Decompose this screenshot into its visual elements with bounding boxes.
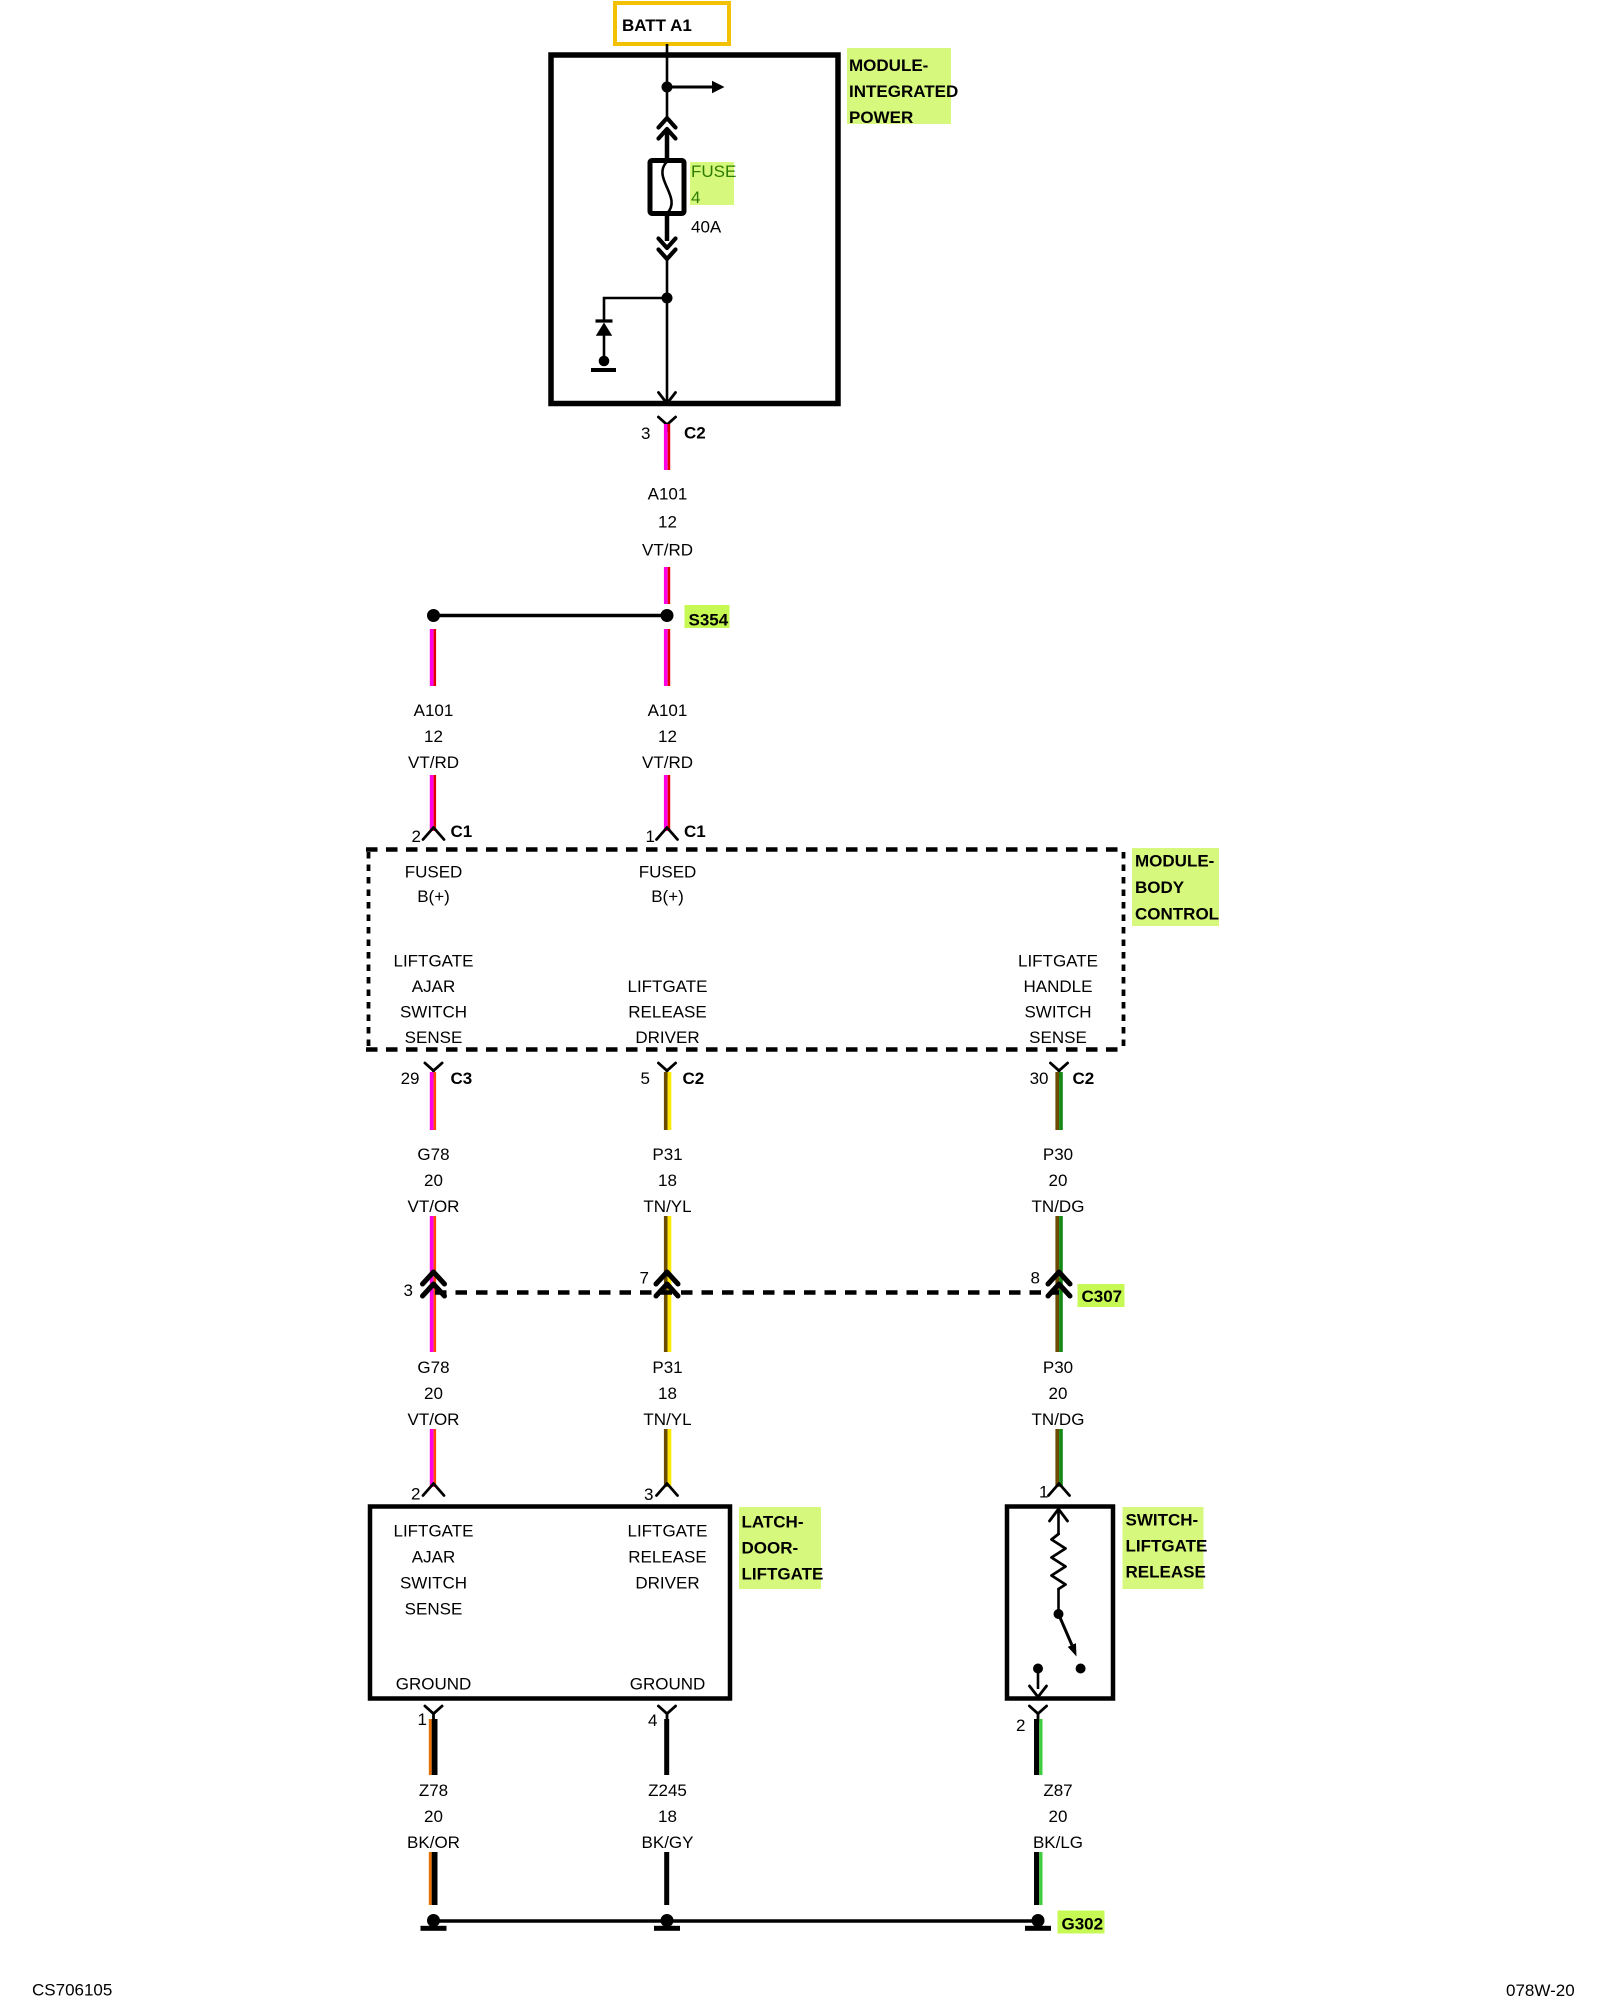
pin label LIFTGATE RELEASE DRIVER (latch)	[628, 1522, 708, 1593]
wire A101 VT/RD segment 2	[664, 567, 670, 604]
svg-text:20: 20	[1049, 1384, 1068, 1403]
wire Z87 BK/LG segment 2	[1034, 1852, 1043, 1905]
wire P30 TN/DG segment 1	[1055, 1072, 1062, 1130]
wire Z245 BK/GY segment 2	[664, 1852, 669, 1905]
wire internal feed	[666, 57, 669, 118]
pin label LIFTGATE AJAR SWITCH SENSE	[394, 952, 474, 1048]
svg-text:A101: A101	[648, 485, 688, 504]
connector pin 2 (chevron, latch)	[411, 1484, 444, 1504]
svg-text:GROUND: GROUND	[396, 1675, 472, 1694]
wire label Z87 20 BK/LG	[1033, 1781, 1083, 1852]
svg-text:A101: A101	[648, 701, 688, 720]
svg-text:7: 7	[640, 1269, 649, 1288]
label SWITCH-LIFTGATE RELEASE	[1123, 1507, 1208, 1589]
wire P30 TN/DG segment 2	[1055, 1216, 1062, 1352]
svg-text:SENSE: SENSE	[1029, 1028, 1087, 1047]
svg-text:18: 18	[658, 1171, 677, 1190]
svg-text:3: 3	[644, 1485, 653, 1504]
wire ground bus	[434, 1919, 1039, 1923]
wire label Z78 20 BK/OR	[407, 1781, 460, 1852]
svg-text:12: 12	[424, 727, 443, 746]
fuse FUSE 4 40A	[650, 161, 684, 214]
wire label G78 20 VT/OR	[408, 1145, 460, 1216]
connector pin 2 C1 (chevron)	[412, 822, 473, 846]
svg-text:G78: G78	[417, 1358, 449, 1377]
wire Z245 BK/GY segment 1	[664, 1719, 669, 1775]
svg-text:C307: C307	[1082, 1287, 1123, 1306]
wire Z87 BK/LG segment 1	[1034, 1719, 1043, 1775]
node switch common	[1054, 1609, 1064, 1619]
module U1 MODULE-INTEGRATED POWER (box)	[551, 55, 838, 404]
connector C307 pin 3 chevrons	[404, 1272, 445, 1300]
wire A101 VT/RD left branch	[430, 629, 436, 686]
svg-text:VT/OR: VT/OR	[408, 1197, 460, 1216]
switch SW1 blade	[1059, 1614, 1086, 1674]
splice S354	[427, 609, 674, 622]
svg-text:LATCH-: LATCH-	[742, 1513, 804, 1532]
svg-text:LIFTGATE: LIFTGATE	[628, 977, 708, 996]
svg-text:RELEASE: RELEASE	[1126, 1563, 1206, 1582]
svg-text:SWITCH: SWITCH	[400, 1574, 467, 1593]
svg-text:CS706105: CS706105	[32, 1981, 112, 2000]
pin label LIFTGATE AJAR SWITCH SENSE (latch)	[394, 1522, 474, 1619]
svg-text:4: 4	[648, 1711, 657, 1730]
svg-text:Z78: Z78	[419, 1781, 448, 1800]
wire A101 VT/RD right branch	[664, 629, 670, 686]
label G302	[1058, 1911, 1105, 1934]
svg-text:FUSED: FUSED	[639, 863, 697, 882]
wire switch internal entry	[1050, 1506, 1068, 1535]
connector pin 5 C2 (Y)	[641, 1063, 705, 1088]
svg-text:INTEGRATED: INTEGRATED	[849, 82, 958, 101]
wire P30 TN/DG segment 3	[1055, 1429, 1062, 1487]
connector chevrons up (internal)	[659, 118, 676, 139]
resistor R1 (switch internal)	[1052, 1534, 1066, 1589]
svg-text:LIFTGATE: LIFTGATE	[628, 1522, 708, 1541]
svg-text:C3: C3	[451, 1069, 473, 1088]
svg-text:C2: C2	[683, 1069, 705, 1088]
wire branch to diode	[604, 298, 667, 321]
svg-text:LIFTGATE: LIFTGATE	[1018, 952, 1098, 971]
svg-text:G78: G78	[417, 1145, 449, 1164]
svg-text:12: 12	[658, 513, 677, 532]
svg-text:TN/DG: TN/DG	[1032, 1410, 1085, 1429]
label S354	[685, 605, 730, 630]
wire thick to fuse	[665, 129, 670, 162]
wire Z78 BK/OR segment 2	[429, 1852, 438, 1905]
label LATCH-DOOR-LIFTGATE	[739, 1507, 823, 1589]
svg-text:TN/YL: TN/YL	[643, 1410, 691, 1429]
svg-text:12: 12	[658, 727, 677, 746]
svg-text:8: 8	[1031, 1269, 1040, 1288]
connector pin 30 C2 (Y)	[1030, 1063, 1095, 1088]
svg-text:FUSE: FUSE	[691, 162, 736, 181]
svg-text:20: 20	[1049, 1807, 1068, 1826]
svg-text:AJAR: AJAR	[412, 1548, 455, 1567]
svg-text:Z87: Z87	[1043, 1781, 1072, 1800]
switch contact to pin 2	[1030, 1664, 1047, 1698]
wire label P30 20 TN/DG	[1032, 1145, 1085, 1216]
svg-text:B(+): B(+)	[651, 887, 684, 906]
connector pin 1 (Y, latch bottom)	[418, 1706, 443, 1729]
svg-text:20: 20	[424, 1171, 443, 1190]
module LATCH-DOOR-LIFTGATE (box)	[370, 1507, 730, 1699]
connector C307 pin 7 chevrons	[640, 1269, 678, 1297]
wire label Z245 18 BK/GY	[642, 1781, 694, 1852]
wire internal tap arrow right	[667, 81, 725, 94]
connector C307 pin 8 chevrons	[1031, 1269, 1070, 1297]
svg-text:A101: A101	[414, 701, 454, 720]
svg-text:C2: C2	[684, 424, 706, 443]
svg-text:P30: P30	[1043, 1145, 1073, 1164]
connector pin 4 (Y, latch bottom)	[648, 1706, 676, 1730]
wire A101 VT/RD segment 1	[664, 424, 670, 470]
wire thick below fuse	[665, 213, 670, 241]
node diode ground dot	[599, 356, 610, 367]
ground internal bar	[591, 368, 616, 372]
svg-text:POWER: POWER	[849, 108, 913, 127]
connector chevrons down (internal)	[659, 239, 676, 260]
wire G78 VT/OR segment 3	[430, 1429, 436, 1487]
wire to internal junction	[666, 258, 669, 299]
svg-text:078W-20: 078W-20	[1506, 1981, 1575, 2000]
wire G78 VT/OR segment 2	[430, 1216, 436, 1352]
wire BATT A1 to module	[666, 44, 669, 58]
label MODULE-INTEGRATED POWER	[847, 48, 958, 127]
svg-text:Z245: Z245	[648, 1781, 687, 1800]
connector pin 29 C3 (Y)	[401, 1063, 473, 1088]
svg-text:HANDLE: HANDLE	[1024, 977, 1093, 996]
svg-text:DRIVER: DRIVER	[635, 1028, 699, 1047]
svg-text:BK/OR: BK/OR	[407, 1833, 460, 1852]
svg-text:P31: P31	[652, 1358, 682, 1377]
wire G78 VT/OR segment 1	[430, 1072, 436, 1130]
connector C307 dashed line	[435, 1290, 1059, 1295]
svg-text:B(+): B(+)	[417, 887, 450, 906]
svg-text:P30: P30	[1043, 1358, 1073, 1377]
svg-text:VT/RD: VT/RD	[642, 541, 693, 560]
pin label LIFTGATE RELEASE DRIVER	[628, 977, 708, 1047]
svg-text:40A: 40A	[691, 218, 722, 237]
connector pin 1 C1 (chevron)	[646, 822, 706, 846]
svg-text:LIFTGATE: LIFTGATE	[394, 952, 474, 971]
svg-text:LIFTGATE: LIFTGATE	[1126, 1537, 1208, 1556]
svg-text:4: 4	[691, 188, 700, 207]
label C307	[1078, 1284, 1125, 1307]
svg-text:RELEASE: RELEASE	[628, 1548, 706, 1567]
wire A101 VT/RD right segment 2	[664, 775, 670, 831]
svg-text:TN/YL: TN/YL	[643, 1197, 691, 1216]
svg-text:BK/LG: BK/LG	[1033, 1833, 1083, 1852]
svg-text:DRIVER: DRIVER	[635, 1574, 699, 1593]
svg-text:P31: P31	[652, 1145, 682, 1164]
svg-text:LIFTGATE: LIFTGATE	[394, 1522, 474, 1541]
svg-text:VT/RD: VT/RD	[408, 753, 459, 772]
wire label A101 12 VT/RD	[642, 485, 693, 560]
ground G302 (middle)	[654, 1914, 680, 1931]
svg-text:MODULE-: MODULE-	[849, 56, 928, 75]
svg-text:30: 30	[1030, 1069, 1049, 1088]
wire label A101 12 VT/RD (right)	[642, 701, 693, 772]
svg-text:C1: C1	[451, 822, 473, 841]
pin label LIFTGATE HANDLE SWITCH SENSE	[1018, 952, 1098, 1048]
label FUSE 4	[690, 162, 736, 207]
wire A101 VT/RD left segment 2	[430, 775, 436, 831]
node internal junction 2	[662, 293, 673, 304]
wire exit chevron at box edge	[659, 393, 676, 404]
module U2 MODULE-BODY CONTROL (dashed box)	[366, 850, 1126, 1050]
svg-text:20: 20	[1049, 1171, 1068, 1190]
power feed box BATT A1	[615, 3, 729, 44]
svg-text:5: 5	[641, 1069, 650, 1088]
connector pin 3 C2 (Y)	[641, 417, 706, 443]
svg-text:RELEASE: RELEASE	[628, 1003, 706, 1022]
connector pin 2 (Y, switch bottom)	[1016, 1706, 1047, 1735]
svg-text:VT/OR: VT/OR	[408, 1410, 460, 1429]
wire label P31 18 TN/YL	[643, 1145, 691, 1216]
wire P31 TN/YL segment 2	[664, 1216, 671, 1352]
svg-text:BK/GY: BK/GY	[642, 1833, 694, 1852]
svg-text:20: 20	[424, 1807, 443, 1826]
svg-text:1: 1	[646, 827, 655, 846]
wire main output	[666, 298, 669, 403]
svg-text:3: 3	[641, 424, 650, 443]
svg-text:C2: C2	[1073, 1069, 1095, 1088]
svg-text:SWITCH: SWITCH	[1024, 1003, 1091, 1022]
node internal junction	[662, 82, 673, 93]
svg-text:DOOR-: DOOR-	[742, 1539, 799, 1558]
svg-text:2: 2	[412, 827, 421, 846]
svg-text:TN/DG: TN/DG	[1032, 1197, 1085, 1216]
wire label P30 20 TN/DG (lower)	[1032, 1358, 1085, 1429]
ground G302 (left)	[421, 1914, 447, 1931]
svg-text:1: 1	[418, 1710, 427, 1729]
svg-text:AJAR: AJAR	[412, 977, 455, 996]
svg-text:1: 1	[1039, 1483, 1048, 1502]
label MODULE-BODY CONTROL	[1132, 848, 1219, 926]
svg-text:G302: G302	[1062, 1915, 1104, 1934]
svg-text:BATT A1: BATT A1	[622, 16, 692, 35]
wire P31 TN/YL segment 1	[664, 1072, 671, 1130]
svg-text:29: 29	[401, 1069, 420, 1088]
svg-text:3: 3	[404, 1281, 413, 1300]
svg-text:BODY: BODY	[1135, 878, 1185, 897]
connector pin 1 (chevron, switch)	[1039, 1483, 1069, 1502]
wire P31 TN/YL segment 3	[664, 1429, 671, 1487]
svg-text:SWITCH: SWITCH	[400, 1003, 467, 1022]
pin label FUSED B(+) (left)	[405, 863, 463, 907]
svg-text:C1: C1	[684, 822, 706, 841]
svg-text:SENSE: SENSE	[405, 1600, 463, 1619]
svg-text:MODULE-: MODULE-	[1135, 852, 1214, 871]
svg-text:CONTROL: CONTROL	[1135, 905, 1219, 924]
wire Z78 BK/OR segment 1	[429, 1719, 438, 1775]
svg-text:18: 18	[658, 1384, 677, 1403]
svg-text:LIFTGATE: LIFTGATE	[742, 1565, 824, 1584]
pin label FUSED B(+) (right)	[639, 863, 697, 907]
wire resistor to switch common	[1057, 1589, 1060, 1610]
svg-text:FUSED: FUSED	[405, 863, 463, 882]
wire label P31 18 TN/YL (lower)	[643, 1358, 691, 1429]
svg-text:2: 2	[411, 1485, 420, 1504]
svg-text:VT/RD: VT/RD	[642, 753, 693, 772]
module SWITCH-LIFTGATE RELEASE (box)	[1007, 1507, 1113, 1699]
ground G302 (right)	[1025, 1914, 1051, 1931]
svg-text:S354: S354	[689, 611, 729, 630]
svg-text:2: 2	[1016, 1716, 1025, 1735]
connector pin 3 (chevron, latch)	[644, 1484, 677, 1505]
svg-text:SWITCH-: SWITCH-	[1126, 1511, 1199, 1530]
svg-text:GROUND: GROUND	[630, 1675, 706, 1694]
svg-text:18: 18	[658, 1807, 677, 1826]
wire label G78 20 VT/OR (lower)	[408, 1358, 460, 1429]
diode D1	[596, 321, 613, 358]
svg-text:SENSE: SENSE	[405, 1028, 463, 1047]
svg-text:20: 20	[424, 1384, 443, 1403]
wire label A101 12 VT/RD (left)	[408, 701, 459, 772]
